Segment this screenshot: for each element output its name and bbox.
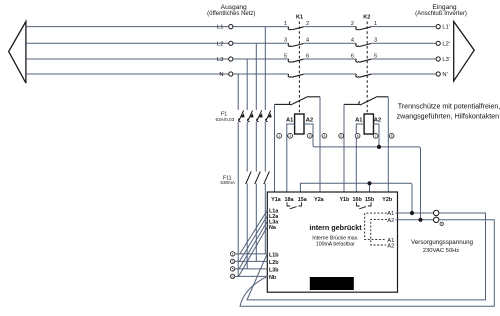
wire L3 bus [26,58,436,60]
svg-text:1: 1 [284,21,287,27]
labels L1' L2' L3' N' right [442,25,450,78]
svg-text:1: 1 [278,134,280,138]
wire supply A1 loop to L1b [247,213,486,300]
svg-text:2: 2 [306,21,309,27]
svg-text:Y2b: Y2b [382,197,393,203]
svg-text:6: 6 [357,134,359,138]
box left terminal labels [269,209,279,281]
svg-text:N: N [219,72,223,78]
K2 contact pin numbers [351,21,377,59]
wire diagonal to L1a [240,210,267,254]
svg-text:2: 2 [351,21,354,27]
fuse F11 pole on L1 [264,172,270,185]
terminal L2' right [436,41,440,45]
left arrow (Ausgang) [9,22,26,84]
node L3b row [235,268,267,270]
svg-text:zwangsgeführten, Hilfskontakte: zwangsgeführten, Hilfskontakten [397,112,500,120]
svg-text:Versorgungsspannung: Versorgungsspannung [411,239,473,246]
svg-text:5: 5 [284,53,287,59]
wire Y2a (K1 aux right lead down) [319,97,321,192]
svg-text:6: 6 [351,53,354,59]
wire L2 mid [255,122,257,261]
wire diagonal to L2a [239,216,267,262]
K1 contact pin numbers [284,21,309,59]
wire 15b stub [369,183,371,192]
marker circle row2 [230,259,234,263]
wire A2 feed to supply [379,147,421,220]
terminal L2 left [229,41,233,45]
svg-text:6: 6 [306,53,309,59]
marker circle 4 [322,133,327,138]
terminal supply A1 [434,210,439,215]
wire Y1a (K1 aux left lead down) [274,104,276,192]
wire Y2b (K2 aux right lead down) [387,97,389,192]
svg-text:A1: A1 [355,118,363,124]
svg-text:A2: A2 [374,118,381,124]
node Nb row [235,275,267,277]
svg-text:3: 3 [232,260,234,264]
svg-text:16b: 16b [353,197,363,203]
svg-text:1: 1 [232,252,234,256]
svg-text:Na: Na [269,225,277,231]
svg-text:Y1b: Y1b [339,197,350,203]
earth mark [440,222,443,225]
svg-text:A1: A1 [286,118,294,124]
svg-text:100mA belastbar: 100mA belastbar [316,241,355,247]
contactor K2 main contact 4-3 [356,44,371,47]
wire diagonal to Na [239,227,268,277]
svg-text:N': N' [442,72,447,78]
fuse F11 pole on L3 [246,172,252,185]
RCD F1 pole on L2 [257,110,263,121]
svg-text:Y1a: Y1a [271,197,282,203]
marker circle 8 [389,133,394,138]
terminal N left [229,72,233,76]
junction 15b [367,181,371,185]
svg-text:L2b: L2b [269,260,279,266]
terminal L1 left [229,25,233,29]
svg-text:15a: 15a [298,197,308,203]
dashed bridge A1 group [365,213,387,240]
fuse F11 pole on L2 [255,172,260,185]
wire K2 A2 down [374,124,380,147]
K1 mechanical link (dashed) [298,22,300,115]
text Ausgang [207,4,255,17]
note Trennschütze [397,102,500,120]
wire A2 out to supply terminal [396,219,434,221]
enclosure box [267,192,397,292]
terminal L3 left [229,57,233,61]
contactor K2 main contact 2-1 [356,27,371,30]
svg-text:8: 8 [391,134,393,138]
wire tap L2 down [255,43,257,110]
wire 15a/15b chain to supply A1 [300,183,412,213]
terminal L3' right [436,57,440,61]
svg-text:L3': L3' [442,57,450,63]
svg-text:(öffentliches Netz): (öffentliches Netz) [207,11,255,17]
terminal L1' right [436,25,440,29]
wire N bus [26,73,436,75]
svg-text:3: 3 [284,38,287,44]
contactor K1 main contact 5-6 [288,59,303,62]
wire L1 mid [264,122,266,254]
svg-text:Y2a: Y2a [314,197,325,203]
svg-text:(Anschluß Inverter): (Anschluß Inverter) [415,10,467,17]
node L1a row [235,253,267,255]
wire K1 A2 [304,124,379,147]
wire L3 mid [246,122,248,269]
wire diagonal to L3a [239,221,267,269]
svg-text:Trennschütze mit potentialfrei: Trennschütze mit potentialfreien, [398,102,500,110]
right arrow (Eingang) [454,22,475,82]
black label block [310,277,354,290]
svg-text:5: 5 [374,53,377,59]
marker circle row3 [230,267,234,271]
aux contact 16b-15b inside box [357,202,372,209]
svg-text:230VAC 50Hz: 230VAC 50Hz [423,248,459,254]
marker circle 3 [307,133,312,138]
svg-text:3: 3 [309,134,311,138]
svg-text:18a: 18a [285,197,295,203]
wire supply A2 loop to Nb (curved) [240,220,494,306]
node L2b row [235,260,267,262]
svg-text:1: 1 [374,21,377,27]
svg-text:4: 4 [351,38,354,44]
RCD F1 pole on N [238,110,244,121]
svg-text:K2: K2 [363,15,370,21]
marker circle 7 [373,133,378,138]
svg-text:5: 5 [340,134,342,138]
dashed bridge A2 group [371,219,387,245]
marker circle 6 [355,133,360,138]
svg-text:A2: A2 [387,243,394,249]
aux contact 18a-15a inside box [287,202,302,209]
labels A1/A2 terminals in box [387,211,394,249]
svg-text:L2': L2' [442,41,450,47]
svg-text:intern gebrückt: intern gebrückt [309,223,362,232]
svg-text:A1: A1 [387,211,394,217]
RCD F1 pole on L3 [247,110,253,121]
svg-text:2: 2 [289,134,291,138]
labels L1 L2 L3 N left [217,25,223,78]
svg-text:63A/0,03: 63A/0,03 [216,117,235,122]
svg-text:L1: L1 [217,25,223,31]
svg-text:Nb: Nb [269,275,277,281]
wire Y1b (K2 aux left lead down) [343,104,345,192]
wire L1 bus [26,26,436,28]
box top terminal labels [271,197,393,203]
terminal N' right [436,72,440,76]
text Eingang [415,4,467,17]
wire L2 bus [26,42,436,44]
junction supply A1 [410,211,414,215]
svg-text:5: 5 [232,267,234,271]
svg-text:4: 4 [324,134,326,138]
svg-text:L2: L2 [217,41,223,47]
svg-text:K1: K1 [296,15,303,21]
wire N mid [237,122,239,276]
wire tap N down [237,74,239,110]
wire K1 A1 to 18a [287,124,295,192]
svg-text:L1b: L1b [269,252,279,258]
junction supply A2 [418,218,422,222]
coil K1 [295,114,304,134]
svg-text:630mA: 630mA [220,180,235,185]
RCD F1 pole on L1 [266,110,272,121]
K2 mechanical link (dashed) [366,22,368,115]
wire tap L3 down [246,59,248,110]
contactor K1 main contact 1-2 [288,27,303,30]
svg-text:7: 7 [375,134,377,138]
wire A1 out to supply terminal [396,212,434,214]
marker digits left rows [231,252,234,278]
contactor K2 main contact N [356,74,371,77]
svg-text:L3b: L3b [269,267,279,273]
marker digits top [278,134,392,138]
svg-text:L3: L3 [217,57,223,63]
svg-text:A2: A2 [387,218,394,224]
junction A2 coils [377,145,381,149]
marker circle 2 [288,133,293,138]
marker circle 1 [277,133,282,138]
contactor K2 main contact 6-5 [356,59,371,62]
contactor K2 aux contact [344,97,388,105]
marker circle row4 [230,274,234,278]
svg-text:15b: 15b [365,197,375,203]
svg-text:A2: A2 [306,118,313,124]
wire tap L1 down [264,27,266,110]
coil K2 [364,114,373,134]
svg-text:L1': L1' [442,25,450,31]
marker circle row1 [230,252,234,256]
contactor K1 main contact N [288,74,303,77]
wire K2 A1 to 16b [356,124,364,192]
marker circle 5 [339,133,344,138]
svg-text:4: 4 [306,38,309,44]
svg-text:3: 3 [374,38,377,44]
contactor K1 main contact 3-4 [288,44,303,47]
terminal supply A2 [434,217,439,222]
contactor K1 aux contact [275,97,321,105]
